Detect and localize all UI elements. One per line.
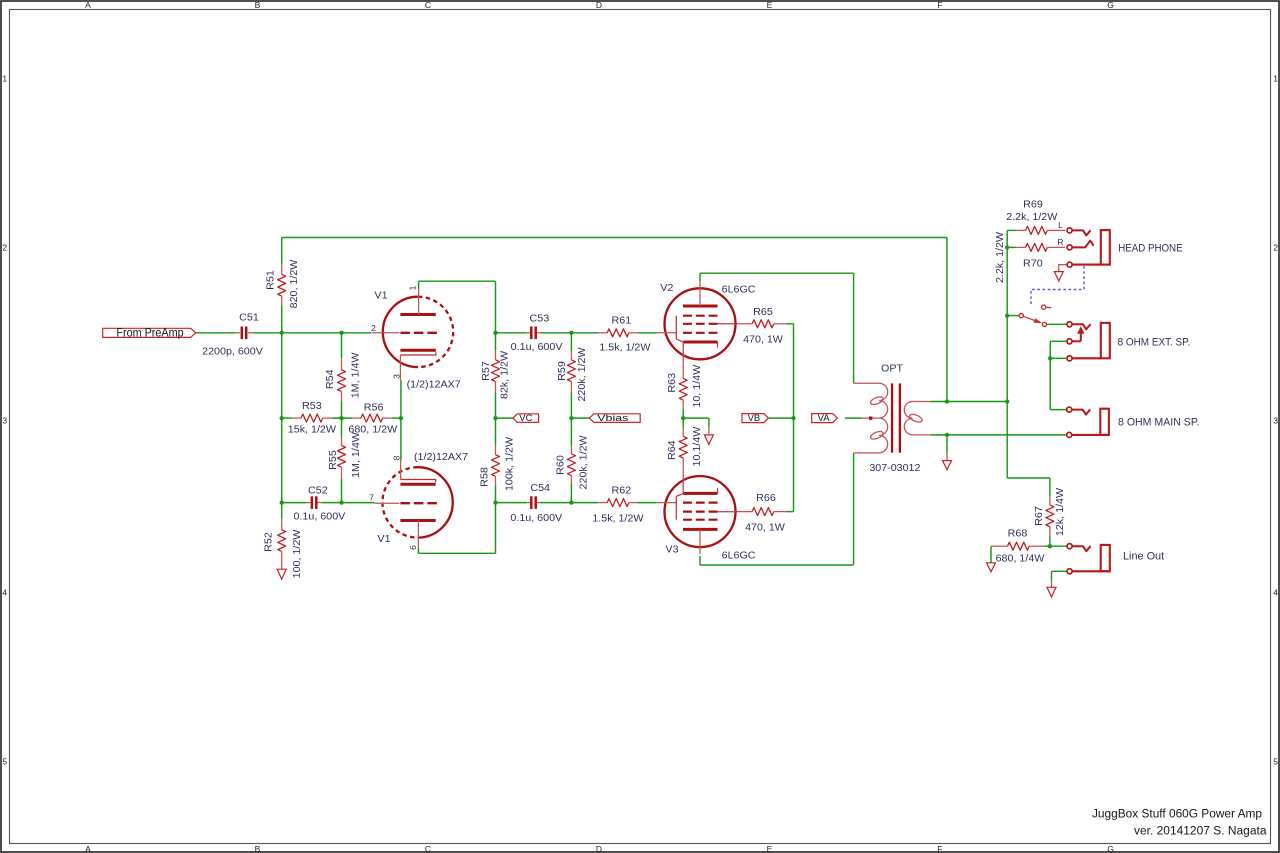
svg-text:E: E bbox=[767, 844, 773, 853]
svg-text:15k, 1/2W: 15k, 1/2W bbox=[288, 425, 337, 436]
svg-text:R64: R64 bbox=[667, 440, 678, 460]
svg-text:G: G bbox=[1107, 0, 1114, 10]
svg-text:C52: C52 bbox=[308, 486, 328, 497]
svg-text:1.5k, 1/2W: 1.5k, 1/2W bbox=[592, 513, 644, 524]
svg-text:2200p, 600V: 2200p, 600V bbox=[202, 347, 263, 358]
svg-text:OPT: OPT bbox=[881, 364, 903, 375]
svg-text:680, 1/4W: 680, 1/4W bbox=[996, 554, 1045, 565]
svg-text:R57: R57 bbox=[481, 361, 492, 381]
svg-text:R54: R54 bbox=[325, 369, 336, 389]
svg-text:1M, 1/4W: 1M, 1/4W bbox=[351, 432, 362, 478]
svg-text:V2: V2 bbox=[660, 283, 674, 294]
svg-text:C: C bbox=[425, 0, 431, 10]
svg-text:R55: R55 bbox=[328, 450, 339, 470]
svg-text:10, 1/4W: 10, 1/4W bbox=[692, 364, 703, 407]
svg-text:R67: R67 bbox=[1034, 506, 1045, 526]
svg-text:1: 1 bbox=[1273, 74, 1278, 84]
svg-text:5: 5 bbox=[2, 757, 7, 767]
svg-text:3: 3 bbox=[1273, 416, 1278, 426]
svg-text:100k, 1/2W: 100k, 1/2W bbox=[505, 436, 516, 491]
svg-text:R: R bbox=[1057, 237, 1063, 247]
svg-text:1M, 1/4W: 1M, 1/4W bbox=[350, 352, 361, 398]
svg-text:82k, 1/2W: 82k, 1/2W bbox=[499, 350, 510, 399]
svg-text:R63: R63 bbox=[667, 372, 678, 392]
svg-text:A: A bbox=[85, 844, 91, 853]
svg-text:8 OHM EXT. SP.: 8 OHM EXT. SP. bbox=[1118, 336, 1191, 348]
svg-text:VA: VA bbox=[818, 413, 831, 424]
svg-text:2: 2 bbox=[1273, 243, 1278, 253]
svg-text:D: D bbox=[596, 844, 602, 853]
svg-text:C51: C51 bbox=[239, 313, 259, 324]
svg-text:5: 5 bbox=[1273, 757, 1278, 767]
svg-text:(1/2)12AX7: (1/2)12AX7 bbox=[414, 452, 469, 463]
svg-text:V3: V3 bbox=[665, 545, 679, 556]
svg-text:ver. 20141207 S. Nagata: ver. 20141207 S. Nagata bbox=[1134, 826, 1267, 838]
svg-text:R51: R51 bbox=[266, 270, 277, 290]
svg-text:1: 1 bbox=[2, 74, 7, 84]
svg-text:B: B bbox=[255, 0, 261, 10]
svg-text:0.1u, 600V: 0.1u, 600V bbox=[511, 342, 563, 353]
svg-text:JuggBox Stuff 060G Power Amp: JuggBox Stuff 060G Power Amp bbox=[1092, 809, 1262, 821]
svg-text:3: 3 bbox=[2, 416, 7, 426]
svg-text:470, 1W: 470, 1W bbox=[745, 523, 785, 534]
svg-text:R52: R52 bbox=[263, 532, 274, 552]
svg-text:0.1u, 600V: 0.1u, 600V bbox=[294, 512, 346, 523]
svg-text:C53: C53 bbox=[530, 314, 550, 325]
svg-text:680, 1/2W: 680, 1/2W bbox=[348, 425, 397, 436]
svg-text:6L6GC: 6L6GC bbox=[722, 551, 756, 562]
svg-text:HEAD PHONE: HEAD PHONE bbox=[1118, 242, 1182, 254]
svg-text:R58: R58 bbox=[480, 467, 491, 487]
svg-text:307-03012: 307-03012 bbox=[869, 463, 921, 474]
svg-text:D: D bbox=[596, 0, 602, 10]
svg-text:R62: R62 bbox=[612, 485, 632, 496]
svg-text:R66: R66 bbox=[756, 493, 776, 504]
svg-text:F: F bbox=[937, 0, 942, 10]
svg-text:820, 1/2W: 820, 1/2W bbox=[289, 259, 300, 308]
svg-text:220k, 1/2W: 220k, 1/2W bbox=[579, 435, 590, 490]
svg-text:220k, 1/2W: 220k, 1/2W bbox=[577, 347, 588, 402]
svg-text:12k, 1/4W: 12k, 1/4W bbox=[1055, 487, 1066, 536]
svg-text:8 OHM MAIN SP.: 8 OHM MAIN SP. bbox=[1118, 416, 1200, 428]
svg-text:R65: R65 bbox=[753, 307, 773, 318]
svg-text:From PreAmp: From PreAmp bbox=[116, 325, 183, 339]
svg-text:3: 3 bbox=[392, 374, 402, 379]
svg-text:F: F bbox=[937, 844, 942, 853]
svg-text:10,1/4W: 10,1/4W bbox=[692, 426, 703, 466]
svg-text:0.1u, 600V: 0.1u, 600V bbox=[510, 513, 562, 524]
svg-text:2: 2 bbox=[371, 323, 376, 333]
svg-text:(1/2)12AX7: (1/2)12AX7 bbox=[407, 379, 462, 390]
svg-text:8: 8 bbox=[392, 455, 402, 460]
svg-text:2.2k, 1/2W: 2.2k, 1/2W bbox=[995, 231, 1006, 283]
svg-text:R59: R59 bbox=[557, 361, 568, 381]
svg-text:B: B bbox=[255, 844, 261, 853]
svg-text:A: A bbox=[85, 0, 91, 10]
svg-text:2: 2 bbox=[2, 243, 7, 253]
svg-text:4: 4 bbox=[1273, 588, 1278, 598]
svg-text:C: C bbox=[425, 844, 431, 853]
svg-text:VB: VB bbox=[748, 413, 761, 424]
svg-text:V1: V1 bbox=[377, 534, 391, 545]
svg-text:R70: R70 bbox=[1023, 259, 1043, 270]
svg-text:V1: V1 bbox=[374, 291, 388, 302]
svg-text:470, 1W: 470, 1W bbox=[743, 335, 783, 346]
svg-text:G: G bbox=[1107, 844, 1114, 853]
svg-text:4: 4 bbox=[2, 588, 7, 598]
svg-text:1: 1 bbox=[408, 285, 418, 290]
svg-text:VC: VC bbox=[519, 413, 532, 424]
svg-text:7: 7 bbox=[369, 493, 374, 503]
svg-text:R69: R69 bbox=[1023, 200, 1043, 211]
svg-text:R56: R56 bbox=[364, 403, 384, 414]
svg-text:R68: R68 bbox=[1008, 529, 1028, 540]
svg-text:C54: C54 bbox=[530, 483, 550, 494]
svg-text:Vbias: Vbias bbox=[597, 413, 628, 424]
svg-text:Line Out: Line Out bbox=[1123, 551, 1164, 563]
svg-text:R53: R53 bbox=[302, 401, 322, 412]
svg-text:L: L bbox=[1058, 220, 1063, 230]
svg-text:1.5k, 1/2W: 1.5k, 1/2W bbox=[599, 343, 651, 354]
svg-text:6: 6 bbox=[408, 545, 418, 550]
svg-text:100, 1/2W: 100, 1/2W bbox=[292, 529, 303, 578]
svg-text:R60: R60 bbox=[555, 455, 566, 475]
svg-text:6L6GC: 6L6GC bbox=[722, 285, 756, 296]
svg-text:R61: R61 bbox=[612, 315, 632, 326]
svg-text:2.2k, 1/2W: 2.2k, 1/2W bbox=[1006, 212, 1058, 223]
svg-text:E: E bbox=[767, 0, 773, 10]
